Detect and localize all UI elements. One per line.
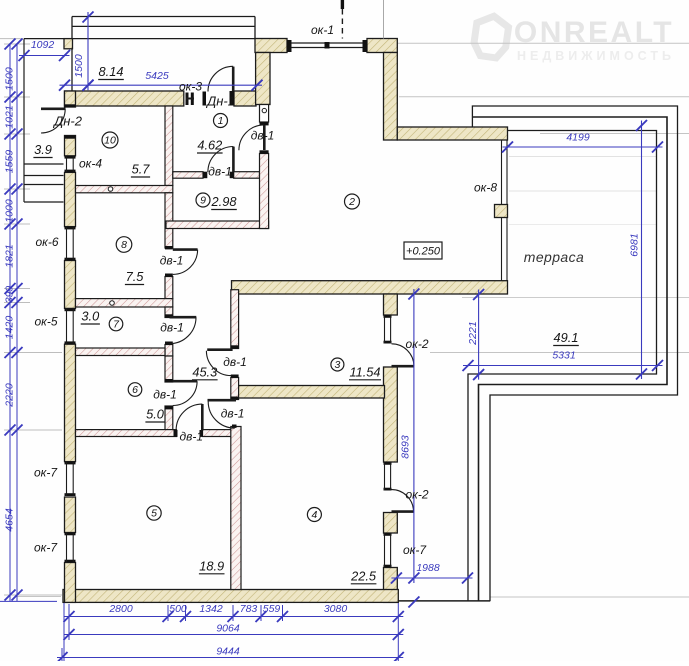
svg-text:дв-1: дв-1 bbox=[221, 406, 245, 420]
svg-text:5425: 5425 bbox=[145, 70, 169, 82]
svg-text:2.98: 2.98 bbox=[211, 194, 238, 209]
svg-text:1420: 1420 bbox=[4, 316, 16, 340]
svg-text:ок-4: ок-4 bbox=[79, 157, 102, 171]
svg-text:783: 783 bbox=[240, 603, 258, 615]
svg-text:5.0: 5.0 bbox=[146, 407, 165, 422]
svg-text:5331: 5331 bbox=[552, 350, 575, 362]
svg-text:3: 3 bbox=[334, 359, 340, 371]
svg-text:ок-7: ок-7 bbox=[34, 466, 58, 480]
svg-text:дв-1: дв-1 bbox=[251, 129, 275, 143]
svg-text:5: 5 bbox=[151, 508, 157, 520]
svg-text:ок-2: ок-2 bbox=[405, 337, 428, 351]
svg-text:НЕДВИЖИМОСТЬ: НЕДВИЖИМОСТЬ bbox=[517, 49, 675, 63]
svg-text:9: 9 bbox=[200, 195, 206, 207]
svg-text:5.7: 5.7 bbox=[132, 162, 151, 177]
svg-text:ок-7: ок-7 bbox=[403, 543, 427, 557]
svg-text:8.14: 8.14 bbox=[99, 64, 124, 79]
svg-text:4199: 4199 bbox=[566, 132, 590, 144]
svg-text:дв-1: дв-1 bbox=[153, 387, 177, 401]
svg-text:6: 6 bbox=[132, 384, 138, 396]
svg-text:2: 2 bbox=[348, 196, 355, 208]
svg-text:9444: 9444 bbox=[216, 646, 240, 658]
svg-text:45.3: 45.3 bbox=[192, 364, 217, 379]
svg-text:ок-3: ок-3 bbox=[179, 80, 202, 94]
svg-text:1559: 1559 bbox=[4, 150, 16, 174]
svg-text:1092: 1092 bbox=[31, 39, 55, 51]
svg-text:10: 10 bbox=[104, 135, 116, 147]
svg-text:1500: 1500 bbox=[4, 67, 16, 91]
svg-text:2220: 2220 bbox=[4, 383, 16, 408]
svg-text:22.5: 22.5 bbox=[350, 568, 377, 583]
svg-text:1821: 1821 bbox=[4, 244, 16, 267]
svg-text:дв-1: дв-1 bbox=[180, 430, 204, 444]
svg-text:9064: 9064 bbox=[216, 623, 240, 635]
svg-text:6981: 6981 bbox=[629, 233, 641, 256]
svg-text:2800: 2800 bbox=[108, 603, 133, 615]
svg-text:7.5: 7.5 bbox=[126, 269, 145, 284]
svg-text:1342: 1342 bbox=[199, 603, 223, 615]
svg-text:ок-8: ок-8 bbox=[474, 181, 497, 195]
svg-text:ок-2: ок-2 bbox=[405, 488, 428, 502]
svg-text:ок-5: ок-5 bbox=[34, 315, 57, 329]
svg-text:3080: 3080 bbox=[324, 603, 348, 615]
svg-text:терраса: терраса bbox=[524, 249, 584, 265]
svg-text:ок-7: ок-7 bbox=[34, 541, 58, 555]
svg-text:559: 559 bbox=[263, 603, 281, 615]
svg-text:4: 4 bbox=[311, 509, 317, 521]
svg-text:3.0: 3.0 bbox=[81, 309, 100, 324]
svg-text:+0.250: +0.250 bbox=[406, 246, 441, 258]
svg-text:49.1: 49.1 bbox=[554, 330, 579, 345]
svg-text:ок-1: ок-1 bbox=[311, 23, 334, 37]
svg-text:11.54: 11.54 bbox=[349, 364, 380, 379]
svg-text:1021: 1021 bbox=[4, 105, 16, 128]
svg-text:1000: 1000 bbox=[4, 199, 16, 223]
svg-text:Дн-2: Дн-2 bbox=[52, 114, 83, 129]
svg-text:1: 1 bbox=[218, 115, 224, 127]
svg-text:8: 8 bbox=[121, 239, 127, 251]
svg-text:4.62: 4.62 bbox=[197, 138, 222, 153]
svg-text:1988: 1988 bbox=[416, 562, 440, 574]
svg-text:Дн-1: Дн-1 bbox=[205, 94, 235, 109]
svg-text:399: 399 bbox=[4, 286, 16, 304]
svg-text:8693: 8693 bbox=[400, 435, 412, 459]
svg-text:3.9: 3.9 bbox=[34, 142, 52, 157]
svg-text:18.9: 18.9 bbox=[199, 558, 224, 573]
svg-text:дв-1: дв-1 bbox=[160, 254, 184, 268]
svg-text:1500: 1500 bbox=[73, 54, 85, 78]
svg-text:ок-6: ок-6 bbox=[35, 235, 58, 249]
svg-text:ONREALT: ONREALT bbox=[514, 16, 674, 49]
svg-text:500: 500 bbox=[169, 603, 187, 615]
svg-text:дв-1: дв-1 bbox=[208, 165, 232, 179]
svg-text:2221: 2221 bbox=[467, 321, 479, 345]
svg-text:дв-1: дв-1 bbox=[160, 321, 184, 335]
svg-text:4654: 4654 bbox=[4, 508, 16, 532]
svg-text:дв-1: дв-1 bbox=[223, 355, 247, 369]
